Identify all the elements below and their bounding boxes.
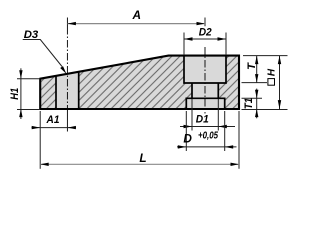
dimension T: [242, 56, 288, 83]
part body fill: [40, 56, 239, 109]
svg-text:H1: H1: [9, 88, 21, 100]
svg-text:A: A: [132, 8, 142, 22]
hole D3 void: [56, 72, 79, 109]
centerline D3: [66, 18, 68, 28]
svg-text:D1: D1: [196, 113, 209, 125]
part outline: [40, 56, 239, 109]
dimension D2: [184, 33, 226, 56]
svg-text:T: T: [246, 62, 258, 70]
hole D1 void: [192, 83, 218, 98]
dimension L: [238, 111, 240, 169]
counterbore D2 edges: [184, 56, 226, 83]
hole D1 edges: [192, 83, 218, 98]
dimension H1: [17, 79, 40, 110]
svg-text:D: D: [183, 131, 192, 145]
svg-text:L: L: [139, 151, 146, 165]
svg-text:H: H: [267, 68, 278, 76]
hole D void: [186, 98, 224, 108]
centerline D2 D1 D: [204, 47, 206, 114]
hole D3 edges: [56, 72, 79, 109]
part hatching: [40, 56, 239, 109]
dimension A1: [39, 111, 41, 169]
svg-text:T1: T1: [243, 98, 255, 110]
hole D edges and shoulder: [186, 98, 224, 109]
svg-text:D2: D2: [199, 27, 213, 39]
dimension D +0,05: [186, 111, 224, 151]
dimension square H: [242, 109, 288, 111]
dimension A: [204, 18, 206, 27]
dimension T1: [242, 97, 263, 99]
svg-text:+0,05: +0,05: [198, 130, 218, 141]
dimension D1: [192, 99, 218, 131]
counterbore D2 void: [184, 56, 226, 83]
svg-text:A1: A1: [46, 114, 60, 126]
